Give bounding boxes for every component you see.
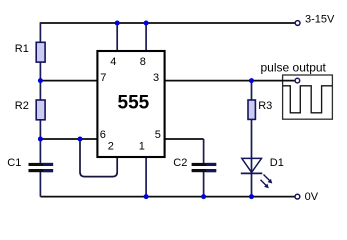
svg-text:C2: C2 [173, 157, 187, 169]
svg-text:D1: D1 [270, 157, 284, 169]
svg-text:7: 7 [100, 72, 106, 84]
svg-text:3: 3 [153, 72, 159, 84]
svg-text:8: 8 [140, 56, 146, 68]
svg-text:C1: C1 [7, 157, 21, 169]
svg-text:R3: R3 [258, 100, 272, 112]
svg-text:3-15V: 3-15V [305, 14, 335, 26]
svg-text:2: 2 [108, 141, 114, 153]
svg-text:6: 6 [100, 129, 106, 141]
svg-text:4: 4 [110, 56, 116, 68]
svg-text:0V: 0V [305, 191, 319, 203]
svg-text:R2: R2 [15, 100, 29, 112]
svg-text:R1: R1 [15, 43, 29, 55]
svg-text:1: 1 [139, 141, 145, 153]
svg-text:5: 5 [155, 129, 161, 141]
svg-text:555: 555 [118, 93, 150, 114]
svg-text:pulse output: pulse output [261, 60, 327, 74]
